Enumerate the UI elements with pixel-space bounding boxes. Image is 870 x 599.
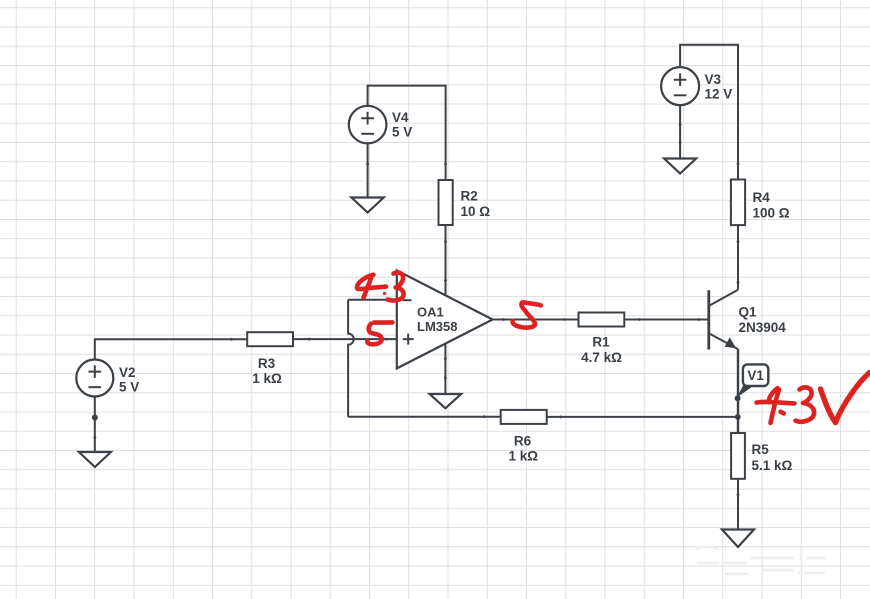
ground (R5) xyxy=(722,530,754,548)
label R3 1 kohm xyxy=(252,356,282,386)
wire feedback vertical with hop over + input xyxy=(348,300,354,417)
voltage source V3 xyxy=(661,67,699,105)
node V1 probe flag xyxy=(737,364,769,397)
svg-text:5.1 kΩ: 5.1 kΩ xyxy=(752,458,793,473)
wire V3 plus to R4 top xyxy=(680,45,739,180)
svg-text:1 kΩ: 1 kΩ xyxy=(509,449,539,464)
resistor R1 xyxy=(579,313,625,327)
watermark (faint) xyxy=(697,547,824,574)
svg-text:V4: V4 xyxy=(392,110,409,125)
pin dot V4 top rail xyxy=(444,162,447,165)
svg-text:12 V: 12 V xyxy=(705,86,733,101)
svg-text:1 kΩ: 1 kΩ xyxy=(252,371,282,386)
voltage source V4 xyxy=(349,106,387,144)
ground (V4) xyxy=(352,198,384,213)
label R4 100 ohm xyxy=(753,190,790,220)
ground (op-amp) xyxy=(430,394,462,408)
svg-text:OA1: OA1 xyxy=(417,305,444,320)
label OA1 LM358 xyxy=(417,305,457,335)
op-amp U1 OA1 triangle xyxy=(397,270,493,368)
wire R3 to op-amp + input xyxy=(293,338,397,341)
svg-text:R6: R6 xyxy=(514,433,532,448)
wire V4 minus to ground xyxy=(366,143,369,197)
svg-text:LM358: LM358 xyxy=(417,319,457,334)
svg-text:V3: V3 xyxy=(705,72,722,87)
wire V2 plus to R3 xyxy=(95,338,247,360)
wire R5 to ground xyxy=(737,479,740,530)
label R6 1 kohm xyxy=(509,433,539,463)
voltage source V2 xyxy=(76,360,113,397)
resistor R2 xyxy=(439,180,453,225)
junction below V2 xyxy=(92,415,98,421)
label R1 4.7 kohm xyxy=(581,335,622,365)
wire R6 to emitter node xyxy=(547,416,738,419)
resistor R4 xyxy=(731,180,745,226)
svg-text:5 V: 5 V xyxy=(392,124,412,139)
svg-text:R1: R1 xyxy=(592,335,610,350)
svg-text:R3: R3 xyxy=(258,356,276,371)
wire Q1 emitter down to R5 xyxy=(737,349,739,433)
wire R4 to Q1 collector xyxy=(737,225,740,290)
resistor R6 xyxy=(501,410,547,424)
node V1 junction dot xyxy=(735,395,741,401)
svg-text:5 V: 5 V xyxy=(119,380,139,395)
resistor R5 xyxy=(731,433,745,479)
wire feedback bottom run to R6 xyxy=(348,415,501,418)
ground (V3) xyxy=(664,159,696,174)
wire R2 to op-amp V+ xyxy=(444,225,447,295)
wire R1 to Q1 base xyxy=(624,318,708,321)
label R2 10 ohm xyxy=(461,189,491,219)
svg-text:V2: V2 xyxy=(119,365,136,380)
wire V2 minus to ground xyxy=(94,396,97,452)
wire inverting input xyxy=(348,299,397,301)
label Q1 2N3904 xyxy=(739,305,787,336)
resistor R3 xyxy=(247,332,293,346)
red annotations xyxy=(357,272,870,423)
wire V3 minus to ground xyxy=(679,105,682,158)
label V2 value 5 V xyxy=(119,365,139,394)
label V4 value 5 V xyxy=(392,110,412,139)
transistor Q1 2N3904 xyxy=(709,290,738,350)
svg-text:V1: V1 xyxy=(747,368,764,383)
op-amp minus input marker xyxy=(403,299,412,301)
annotation 4.3V at emitter node xyxy=(757,373,870,424)
op-amp plus input marker xyxy=(403,334,414,345)
wire op-amp V- pin to ground xyxy=(444,344,447,394)
svg-text:R5: R5 xyxy=(752,442,770,457)
annotation 4.3 at inverting input xyxy=(357,272,404,300)
svg-text:100 Ω: 100 Ω xyxy=(753,205,790,220)
svg-text:2N3904: 2N3904 xyxy=(739,320,787,335)
label R5 5.1 kohm xyxy=(752,442,793,473)
svg-text:Q1: Q1 xyxy=(739,305,758,320)
wire V4 plus to rail corner and down to R2 xyxy=(368,86,446,180)
ground (V2) xyxy=(79,452,111,467)
wire op-amp output to R1 xyxy=(493,318,579,321)
label V3 value 12 V xyxy=(705,72,733,101)
svg-text:4.7 kΩ: 4.7 kΩ xyxy=(581,350,622,365)
svg-text:R4: R4 xyxy=(753,190,771,205)
svg-text:10 Ω: 10 Ω xyxy=(461,204,491,219)
junction R5 top / feedback xyxy=(735,414,741,420)
annotation 5 at non-inverting input xyxy=(367,322,392,344)
annotation 5 at op-amp output xyxy=(513,302,541,327)
svg-text:R2: R2 xyxy=(461,189,478,204)
